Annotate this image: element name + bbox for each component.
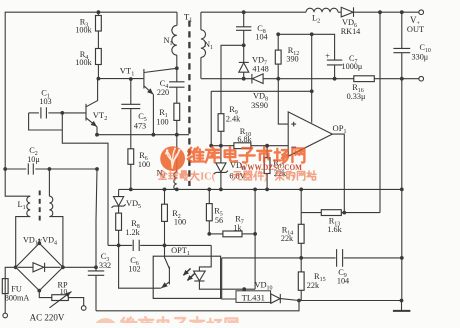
wire bridge bottom to RP <box>39 291 52 298</box>
watermark bottom clipped logo <box>93 318 118 328</box>
wire op-amp supply riser <box>210 91 212 145</box>
resistor R1 lead down <box>176 120 178 134</box>
capacitor C8 104 <box>236 27 251 31</box>
capacitor C7 bottom lead <box>334 65 336 79</box>
junction supply node / R9 VD9 <box>219 144 223 148</box>
bridge rectifier diode symbol <box>33 263 45 272</box>
wire VT1 emitter down <box>152 94 154 134</box>
optocoupler phototransistor collector <box>165 245 170 268</box>
svg-text:330μ: 330μ <box>412 53 429 62</box>
inductor L1 right winding <box>49 196 52 216</box>
optocoupler light arrow 1 <box>183 268 191 275</box>
wire C5 to bottom node <box>130 109 132 149</box>
wire C3 to bottom rail <box>95 275 97 311</box>
capacitor C3 332 <box>88 271 104 275</box>
wire VD7 to V- rail <box>243 72 245 79</box>
svg-text:10μ: 10μ <box>27 155 40 164</box>
resistor R3 100k <box>96 16 102 32</box>
wire R13 node down <box>300 189 302 212</box>
junction C2 / L1 right winding <box>48 167 52 171</box>
capacitor C7 1000u <box>327 60 342 65</box>
bridge node right <box>61 265 65 269</box>
fuse FU 800mA <box>2 279 8 294</box>
wire op-amp plus input <box>278 79 288 124</box>
resistor R12 top lead <box>277 34 279 50</box>
transistor VT2 collector <box>86 79 98 107</box>
svg-text:800mA: 800mA <box>5 294 30 303</box>
wire node A corner to LED <box>199 245 211 271</box>
wire L1 right winding top <box>48 169 50 196</box>
wire node to C4 <box>176 68 178 82</box>
wire base node down to feedback <box>62 113 108 246</box>
wire node A left segment <box>108 244 132 246</box>
wire C9 right to return rail <box>344 257 402 259</box>
svg-text:IC(: IC( <box>200 171 216 182</box>
junction top rail / C10 <box>400 10 404 14</box>
capacitor C2 10u <box>28 163 33 174</box>
terminal AC input right <box>81 306 86 311</box>
wire V- rail to output terminal <box>374 78 419 80</box>
wire supply node bus <box>211 145 234 147</box>
transformer T1 winding N1 secondary <box>201 30 206 58</box>
wire C1 left plate loop <box>29 113 63 130</box>
wire divider corner down to TL431 ref <box>222 258 236 299</box>
junction top rail / R3 <box>97 10 101 14</box>
wire VT2 emitter down <box>96 127 98 135</box>
svg-text:104: 104 <box>255 33 267 42</box>
wire R11 top lead <box>266 146 268 158</box>
inductor L2 <box>306 8 338 12</box>
wire C4 to R1 <box>176 87 178 103</box>
transistor VT2 base bar <box>85 104 87 121</box>
svg-text:100: 100 <box>156 118 168 127</box>
junction emitter bus / R1 / N2 branch <box>175 133 179 137</box>
wire bridge left to fuse <box>5 267 16 278</box>
resistor R8 1.2k <box>116 213 122 230</box>
wire op-amp V+ pin <box>311 91 313 122</box>
resistor R3 lead <box>97 12 99 15</box>
junction supply node / riser <box>209 144 213 148</box>
wire V- rail VD8 to R16 <box>263 78 354 80</box>
svg-text:1000μ: 1000μ <box>342 62 363 71</box>
junction ground bus / R15 <box>297 299 301 303</box>
ground symbol <box>393 310 411 312</box>
wire node A right segment <box>140 244 211 246</box>
svg-text:): ) <box>264 171 267 182</box>
transformer T1 winding N2 auxiliary <box>174 172 177 190</box>
junction emitter bus / VT2 emitter <box>95 133 99 137</box>
inductor L1 left winding <box>27 196 30 216</box>
terminal V+ output <box>419 10 424 15</box>
junction R5 / R7 <box>207 232 211 236</box>
transformer T1 winding N1 primary <box>172 25 177 55</box>
node VT1 collector / N1 / C4 <box>175 66 179 70</box>
svg-text:100: 100 <box>138 160 150 169</box>
junction C9 right / return rail <box>400 256 404 260</box>
wire R8 node down to opto emitter <box>119 245 161 288</box>
inductor L1 core <box>39 191 41 222</box>
wire secondary top to right rail <box>200 12 202 30</box>
svg-text:220: 220 <box>157 88 169 97</box>
wire divider node bus <box>222 257 336 259</box>
junction rail / R2 <box>163 188 167 192</box>
wire rail to VD5 <box>118 189 120 196</box>
junction N2 / common rail <box>175 188 179 192</box>
junction left rail / C2 <box>3 167 7 171</box>
junction C2 / C3 branch <box>95 167 99 171</box>
wire R15 top lead <box>300 258 302 272</box>
resistor R7 1k <box>223 231 242 237</box>
junction bridge output / C3 branch <box>94 265 98 269</box>
resistor R6 100 <box>128 149 134 165</box>
junction R10 / R11 <box>265 144 269 148</box>
transformer T1 core <box>188 21 190 187</box>
svg-text:TL431: TL431 <box>242 292 265 302</box>
wire VD5 to R8 <box>118 206 120 213</box>
svg-text:104: 104 <box>337 277 349 286</box>
svg-text:56: 56 <box>215 216 223 225</box>
wire op-amp output <box>332 134 344 213</box>
wire bottom rail <box>96 301 299 311</box>
junction V- rail / C7 <box>333 77 337 81</box>
svg-text:390: 390 <box>286 55 298 64</box>
wire C2 left <box>5 168 26 170</box>
diode VD8 3S90 <box>252 74 263 84</box>
node VT2 base / C1 <box>60 111 64 115</box>
wire TL431 branch vertical <box>254 189 256 289</box>
terminal AC input left <box>3 313 8 318</box>
svg-text:OUT: OUT <box>407 25 424 34</box>
wire C2 node down to C3 <box>96 169 97 271</box>
wire RP to AC terminal <box>68 298 83 306</box>
wire VD6 to V+ terminal <box>354 11 419 13</box>
resistor R4 lead to node <box>97 65 99 79</box>
svg-text:0.33μ: 0.33μ <box>347 92 366 101</box>
junction aux supply / R12 <box>276 32 280 36</box>
svg-text:6.8V: 6.8V <box>229 172 245 181</box>
junction aux bus / op-amp feed <box>310 32 314 36</box>
bridge node top <box>37 241 41 245</box>
junction node A / R2 / opto collector <box>163 244 167 248</box>
resistor R6 lead to rail <box>130 164 132 189</box>
wire V- rail left of VD8 <box>201 78 252 80</box>
junction C8 / aux wire <box>242 43 246 47</box>
wire top rail right <box>201 11 306 13</box>
wire op-amp supply bus <box>211 90 312 92</box>
resistor R14 lead to divider <box>300 243 302 258</box>
bridge rectifier VD1-VD4 diamond <box>16 243 63 290</box>
svg-text:6.8k: 6.8k <box>237 135 252 144</box>
wire VD9 to rail <box>220 172 222 189</box>
wire rail to R2 <box>164 189 166 204</box>
capacitor C10 330u <box>393 48 410 52</box>
junction VT1 base / C5 branch <box>129 77 133 81</box>
bridge node left <box>14 265 18 269</box>
wire top-left rail and left rail down to L1 <box>5 12 177 196</box>
junction V- rail / C10 <box>400 77 404 81</box>
wire L2 to VD6 <box>338 11 341 13</box>
junction V- rail / VD7 <box>242 77 246 81</box>
resistor R13 1.6k <box>321 210 341 216</box>
wire R13 row left <box>301 212 321 214</box>
junction rail / VD9 <box>219 188 223 192</box>
junction V- rail / R12 / plus input <box>276 77 280 81</box>
wire C10 return branch <box>401 79 403 190</box>
diode VD5 zener <box>112 197 126 208</box>
optocoupler light arrow 2 <box>187 274 195 281</box>
svg-text:FU: FU <box>11 285 22 294</box>
junction LED cathode / TL431 ref branch <box>242 287 246 291</box>
resistor R5 56 <box>206 204 212 221</box>
svg-text:100k: 100k <box>75 58 92 67</box>
wire N2 branch down <box>176 135 178 172</box>
wire R3-R4 <box>97 31 99 49</box>
transistor VT1 emitter arrow <box>144 86 154 95</box>
svg-text:4148: 4148 <box>252 65 268 74</box>
resistor R12 390 <box>275 50 281 64</box>
svg-text:1k: 1k <box>233 224 242 233</box>
capacitor C4 220 <box>169 82 184 87</box>
wire ground stub <box>401 301 403 311</box>
wire C1 left <box>29 112 39 114</box>
op-amp OP1 plus marker <box>291 122 296 127</box>
svg-text:+: + <box>325 51 330 61</box>
junction R13 wire / op-amp output <box>342 211 346 215</box>
optocoupler LED cathode wire <box>199 281 255 289</box>
resistor R11 lead to rail <box>266 174 268 190</box>
wire bridge top stub <box>38 239 40 244</box>
transistor VT2 emitter arrow <box>86 118 97 127</box>
svg-text:22k: 22k <box>281 234 294 243</box>
optocoupler OPT1 package <box>153 256 220 298</box>
transistor VT1 collector <box>144 68 177 72</box>
terminal V- output <box>419 76 424 81</box>
junction top rail / C8 <box>242 10 246 14</box>
shunt regulator VD10 TL431 label box <box>236 291 271 303</box>
svg-text:100k: 100k <box>75 26 92 35</box>
optocoupler phototransistor emitter <box>161 282 169 288</box>
op-amp OP1 minus marker <box>291 146 296 148</box>
junction rail / R11 <box>265 188 269 192</box>
wire return rail lower <box>401 189 403 300</box>
resistor R10 6.8k <box>234 143 251 149</box>
wire bridge right to C3 rail <box>63 266 96 268</box>
resistor R1 100 <box>174 103 180 120</box>
resistor R9 2.4k <box>218 114 224 132</box>
junction emitter bus / VT1 emitter <box>152 133 156 137</box>
capacitor C10 top lead <box>401 12 403 48</box>
fuse FU element <box>4 279 6 294</box>
wire emitter bus <box>97 134 189 136</box>
svg-text:1.6k: 1.6k <box>327 225 342 234</box>
diode VD9 zener 6.8V <box>214 163 228 174</box>
junction divider bus / R14 R15 <box>299 256 303 260</box>
svg-text:RK14: RK14 <box>341 27 361 36</box>
bridge node bottom <box>37 289 41 293</box>
junction rail / R6 <box>129 188 133 192</box>
wire VT1 base <box>98 78 143 80</box>
resistor R4 100k <box>96 49 102 65</box>
wire C1 right to base node <box>48 112 62 114</box>
svg-text:3S90: 3S90 <box>251 101 268 110</box>
svg-text:AC 220V: AC 220V <box>30 313 65 323</box>
resistor R2 lead to node A <box>164 221 166 245</box>
svg-text:22k: 22k <box>307 281 320 290</box>
watermark logo circle <box>160 146 185 171</box>
junction rail / TL431 branch <box>253 188 257 192</box>
resistor R15 lead to ground bus <box>300 290 302 300</box>
wire C2 right <box>35 168 97 170</box>
wire aux supply bus <box>278 34 334 60</box>
svg-text:103: 103 <box>39 97 51 106</box>
svg-text:100: 100 <box>174 218 186 227</box>
wire R14 top lead <box>300 213 302 225</box>
wire VT1-base node down to C5 <box>130 79 132 104</box>
transistor VT1 base bar <box>143 69 145 89</box>
resistor R15 22k <box>298 272 304 290</box>
svg-text:2.4k: 2.4k <box>226 115 241 124</box>
wire R13 to feedback riser <box>341 212 380 214</box>
resistor R11 22k <box>264 158 270 174</box>
junction node A / R8 <box>117 244 121 248</box>
watermark bottom clipped text <box>121 317 238 328</box>
svg-text:1.2k: 1.2k <box>125 228 140 237</box>
junction return rail end <box>400 188 404 192</box>
capacitor C10 bottom lead <box>401 53 403 79</box>
transformer T1 primary top lead <box>176 12 178 25</box>
resistor R12 lead to V- rail <box>277 64 279 79</box>
resistor R9 lead down <box>220 131 222 145</box>
junction R7 / TL431 branch <box>253 232 257 236</box>
potentiometer RP wiper arrow <box>50 292 72 308</box>
wire L1 left winding to bridge <box>16 217 31 268</box>
svg-text:10: 10 <box>60 287 68 296</box>
diode VD6 RK14 <box>341 7 353 17</box>
diode VD7 4148 <box>239 62 249 72</box>
wire VT2 base <box>62 112 85 114</box>
watermark main text 维库电子市场网 <box>188 147 305 163</box>
capacitor C6 102 <box>133 240 139 251</box>
optocoupler LED <box>194 271 206 281</box>
wire N1 to collector node <box>176 55 178 68</box>
capacitor C5 473 <box>121 104 140 108</box>
wire R5 to R7 <box>209 233 223 235</box>
svg-text:102: 102 <box>128 265 140 274</box>
wire secondary bottom to V- rail <box>200 57 202 78</box>
watermark slogan text 全球最大IC(元器件)采购网站 <box>159 171 316 181</box>
wire R10 right to minus input <box>251 145 288 147</box>
wire aux node to R9 <box>221 45 244 113</box>
junction ground bus / ground <box>400 299 404 303</box>
svg-text:473: 473 <box>134 122 146 131</box>
wire feedback riser to top rail <box>379 12 381 212</box>
junction supply bus / op-amp V+ <box>310 89 314 93</box>
resistor R16 0.33 <box>354 76 375 82</box>
potentiometer RP 10 body <box>52 295 69 301</box>
node R4/VT2 collector/VT1 base <box>97 77 101 81</box>
wire VD9 top lead <box>220 146 222 163</box>
junction rail / R13 branch <box>299 188 303 192</box>
bridge rectifier inner line <box>18 266 61 268</box>
junction rail / R5 <box>207 188 211 192</box>
svg-text:WWW.DZSC.COM: WWW.DZSC.COM <box>240 162 302 172</box>
optocoupler phototransistor base bar <box>168 267 170 285</box>
capacitor C8 top lead <box>243 12 245 27</box>
wire R7 to TL431 branch <box>242 233 255 235</box>
op-amp OP1 <box>288 112 332 156</box>
wire rail to R5 <box>208 189 210 203</box>
wire fuse to AC terminal <box>4 294 6 314</box>
capacitor C1 103 <box>41 107 47 118</box>
shunt regulator VD10 TL431 symbol <box>271 294 281 303</box>
svg-text:332: 332 <box>99 261 111 270</box>
wire L1 right winding to bridge <box>49 217 63 268</box>
resistor R8 lead to node A <box>118 230 120 245</box>
wire auxiliary common rail <box>119 188 402 190</box>
wire op-amp feed drop <box>311 34 313 91</box>
resistor R2 100 <box>162 204 168 221</box>
junction top rail / feedback riser <box>378 10 382 14</box>
capacitor C9 104 <box>337 249 343 267</box>
wire TL431 cathode to ground bus <box>280 299 401 301</box>
resistor R14 22k <box>298 224 304 243</box>
wire C8 to VD7 <box>243 30 245 62</box>
resistor R5 lead down <box>208 221 210 234</box>
